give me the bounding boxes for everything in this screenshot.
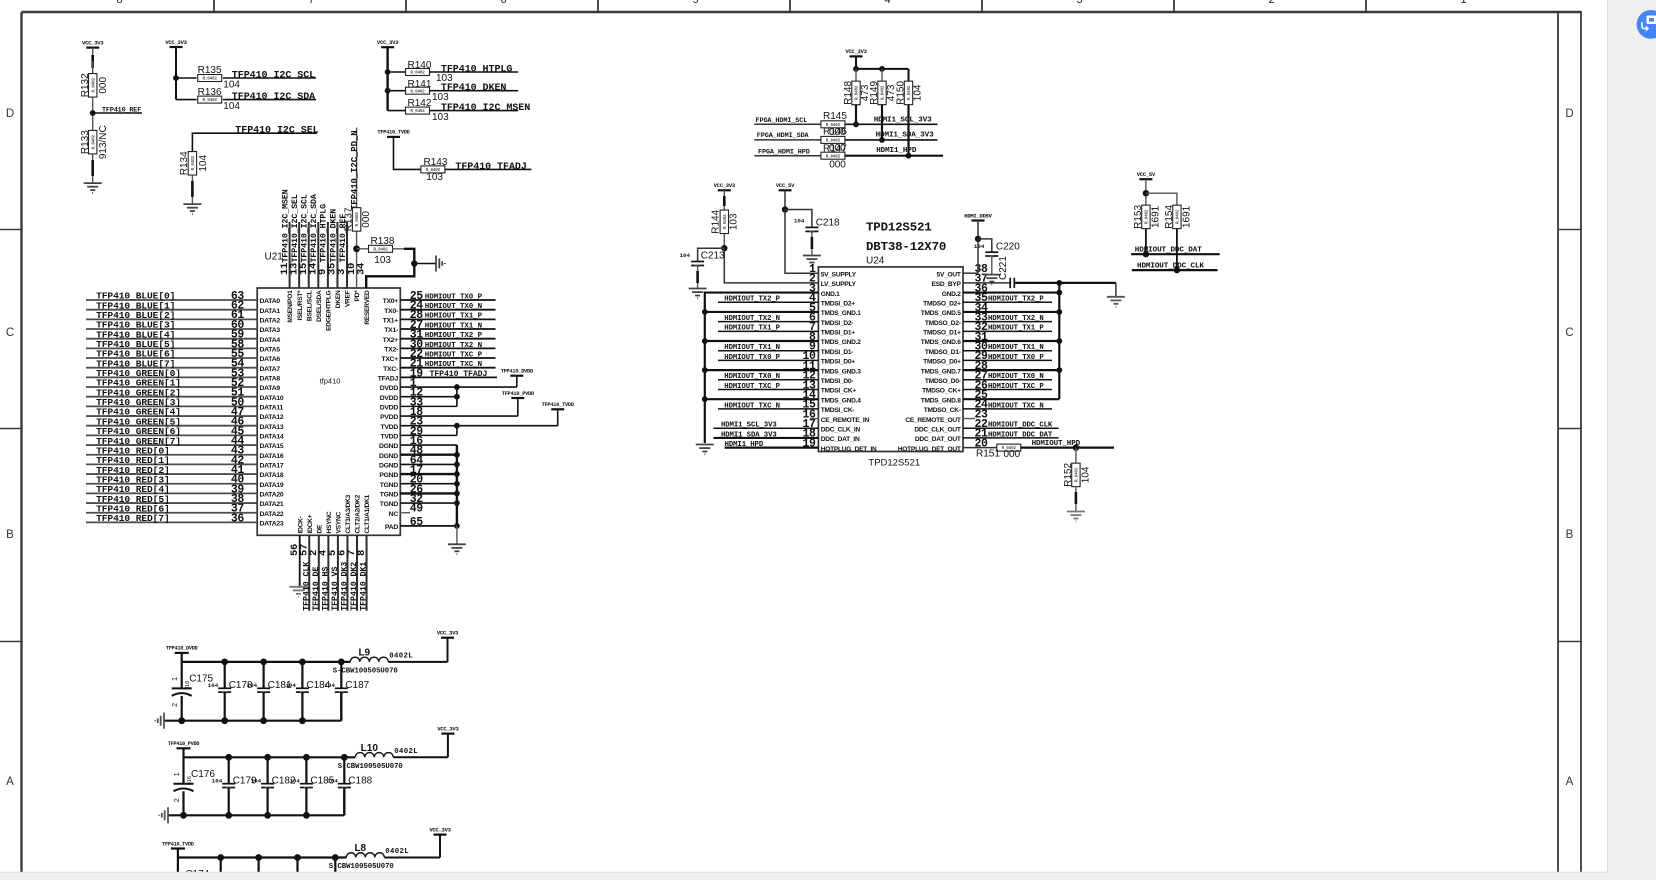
- svg-text:HDMIOUT_TX1_P: HDMIOUT_TX1_P: [724, 325, 780, 333]
- svg-text:HDMI_DD5V: HDMI_DD5V: [964, 212, 992, 219]
- svg-text:ESD_BYP: ESD_BYP: [932, 281, 962, 288]
- svg-text:DATA0: DATA0: [260, 298, 281, 305]
- svg-text:65: 65: [410, 516, 424, 529]
- svg-text:R_0402: R_0402: [855, 85, 860, 100]
- svg-text:HDMIOUT_TX1_N: HDMIOUT_TX1_N: [724, 344, 780, 352]
- resistor R144: [720, 210, 728, 234]
- net TFP410_GREEN[2] pin 51: [86, 396, 257, 398]
- svg-text:VCC_3V3: VCC_3V3: [429, 826, 451, 833]
- svg-text:000: 000: [98, 77, 109, 94]
- svg-text:VCC_5V: VCC_5V: [776, 182, 795, 189]
- svg-text:HDMIOUT_TX0_N: HDMIOUT_TX0_N: [988, 373, 1044, 381]
- wire U24 right GND bus: [1058, 283, 1060, 399]
- svg-text:4: 4: [884, 0, 890, 6]
- wire R149 down: [881, 105, 883, 140]
- svg-text:R147: R147: [823, 143, 847, 154]
- svg-text:TMDS_GND.7: TMDS_GND.7: [921, 368, 962, 375]
- svg-text:R_0402: R_0402: [203, 77, 218, 82]
- svg-text:R_0402: R_0402: [203, 98, 218, 103]
- svg-text:TFP410_DVDD: TFP410_DVDD: [166, 646, 198, 652]
- power VCC_3V3 (bank): [434, 833, 447, 835]
- resistor R149: [878, 81, 886, 105]
- wire TMDS_GND pin 8: [705, 340, 819, 342]
- wire pin20 to R151: [963, 447, 997, 449]
- net TFP410_RED[4] pin 39: [86, 492, 257, 494]
- resistor R146: [821, 136, 845, 143]
- net TFP410_BLUE[3] pin 60: [86, 328, 257, 330]
- svg-text:5V_OUT: 5V_OUT: [937, 271, 961, 278]
- net HDMIOUT_TXC_N pin 21: [400, 367, 495, 369]
- resistor R134: [188, 152, 196, 176]
- net TFP410_RED[2] pin 41: [86, 473, 257, 475]
- net HDMIOUT_TX2_N pin 30: [400, 347, 495, 349]
- svg-text:104: 104: [324, 682, 335, 689]
- wire TMDS_GND pin 31: [963, 340, 1059, 342]
- svg-text:HDMIOUT_TXC_N: HDMIOUT_TXC_N: [988, 402, 1044, 410]
- net HDMIOUT_TX0_N pin 24: [400, 309, 495, 311]
- wire: [92, 97, 94, 130]
- net TFP410_RED[0] pin 43: [86, 454, 257, 456]
- svg-text:TMDSO_D1+: TMDSO_D1+: [923, 330, 961, 337]
- net HDMI1_HPD (U24): [725, 447, 819, 449]
- svg-text:R146: R146: [823, 127, 847, 138]
- svg-text:TFP410_PVDD: TFP410_PVDD: [168, 741, 200, 747]
- svg-text:BSEL/SCL: BSEL/SCL: [306, 290, 313, 321]
- resistor R143: [421, 166, 445, 173]
- net TFP410_DKEN: [430, 90, 519, 92]
- power TFP410_DVDD (U21): [510, 375, 523, 377]
- svg-text:TGND: TGND: [380, 482, 399, 489]
- svg-text:0402L: 0402L: [389, 652, 413, 660]
- svg-text:104: 104: [289, 777, 300, 784]
- svg-text:R149: R149: [869, 81, 880, 105]
- svg-text:HDMIOUT_TX1_P: HDMIOUT_TX1_P: [988, 325, 1044, 333]
- svg-text:DATA15: DATA15: [260, 443, 284, 450]
- svg-text:TMDSO_D0+: TMDSO_D0+: [923, 359, 961, 366]
- capacitor stub: [220, 858, 222, 880]
- net HDMIOUT_TX1_N pin 27: [400, 328, 495, 330]
- wire rail: [182, 748, 184, 757]
- svg-text:104: 104: [913, 84, 924, 101]
- resistor R141: [406, 87, 430, 94]
- svg-text:C: C: [1565, 327, 1573, 339]
- capacitor C175 (polarized): [181, 662, 183, 689]
- zone ticks top: [213, 0, 215, 12]
- svg-text:R133: R133: [80, 130, 91, 154]
- svg-text:HDMIOUT_DDC_DAT: HDMIOUT_DDC_DAT: [988, 431, 1053, 439]
- svg-text:CLT3/A3/DK3: CLT3/A3/DK3: [345, 494, 352, 533]
- svg-text:DATA21: DATA21: [260, 501, 284, 508]
- wire R138 to pin34: [392, 248, 404, 250]
- svg-text:TFP410_TVDD: TFP410_TVDD: [162, 841, 194, 847]
- svg-text:FPGA_HDMI_HPD: FPGA_HDMI_HPD: [758, 148, 810, 156]
- pin 13 ISEL/RST* (U21 top): [298, 222, 300, 288]
- svg-text:C188: C188: [348, 775, 372, 786]
- net TFP410_TFADJ: [445, 168, 531, 170]
- capacitor stub: [296, 858, 298, 880]
- svg-text:DGND: DGND: [379, 443, 398, 450]
- resistor R136: [198, 96, 222, 103]
- wire to VCC: [384, 857, 440, 859]
- svg-text:HDMIOUT_DDC_CLK: HDMIOUT_DDC_CLK: [1137, 262, 1204, 270]
- resistor R151: [997, 444, 1021, 451]
- wire R150 down: [907, 105, 909, 156]
- pin 9 EDGE/HTPLG (U21 top): [327, 222, 329, 288]
- svg-text:C221: C221: [998, 256, 1009, 280]
- power TFP410_PVDD (bank): [177, 747, 191, 749]
- svg-text:HDMIOUT_TX1_P: HDMIOUT_TX1_P: [425, 313, 483, 321]
- svg-text:HDMIOUT_TX0_N: HDMIOUT_TX0_N: [425, 303, 482, 311]
- ground right bus: [1107, 296, 1125, 298]
- svg-text:TFP410_I2C_SEL: TFP410_I2C_SEL: [235, 126, 318, 137]
- svg-text:HDMIOUT_TX2_N: HDMIOUT_TX2_N: [724, 315, 780, 323]
- svg-text:0402L: 0402L: [385, 848, 409, 856]
- ground C218: [803, 255, 821, 257]
- svg-text:L9: L9: [358, 647, 370, 658]
- svg-text:DATA14: DATA14: [260, 433, 284, 440]
- svg-text:R_0402: R_0402: [1075, 467, 1080, 482]
- svg-text:2: 2: [172, 703, 179, 707]
- svg-text:TXC+: TXC+: [381, 356, 398, 363]
- wire TMDS_GND pin 34: [963, 311, 1059, 313]
- svg-text:000: 000: [1004, 449, 1021, 460]
- pin 4 HSYNC (U21 bottom): [327, 535, 329, 610]
- capacitor C181: [263, 662, 265, 688]
- net TFP410_I2C_SDA: [223, 99, 316, 101]
- svg-text:R_0402: R_0402: [410, 89, 425, 94]
- svg-text:R151: R151: [976, 449, 1000, 460]
- chip U24 TPD12S521 outline: [818, 267, 963, 452]
- wire rail: [181, 653, 183, 662]
- svg-text:R136: R136: [198, 87, 222, 98]
- svg-text:TFP410_DE: TFP410_DE: [312, 567, 321, 611]
- net TFP410_I2C_PD_N: [356, 128, 358, 208]
- wire R148 down: [855, 105, 857, 125]
- svg-text:103: 103: [374, 255, 391, 266]
- svg-text:1691: 1691: [1181, 205, 1192, 228]
- power TFP410_PVDD (U21): [511, 397, 524, 399]
- wire ESD_BYP to gnd: [1014, 282, 1116, 284]
- net TFP410_TFADJ pin 19: [400, 376, 497, 378]
- svg-text:U24: U24: [866, 256, 885, 267]
- net TFP410_RED[6] pin 37: [86, 512, 257, 514]
- svg-text:DATA18: DATA18: [260, 472, 284, 479]
- svg-text:DATA16: DATA16: [260, 453, 284, 460]
- svg-text:R153: R153: [1133, 205, 1144, 229]
- svg-text:104: 104: [198, 155, 209, 172]
- resistor R153: [1142, 205, 1150, 229]
- svg-text:HDMIOUT_DDC_DAT: HDMIOUT_DDC_DAT: [1135, 247, 1202, 255]
- pin 2 DE (U21 bottom): [318, 535, 320, 610]
- net HDMIOUT_TXC_N (U24 pin 15): [718, 408, 818, 410]
- svg-text:TX1-: TX1-: [384, 327, 398, 334]
- svg-text:CLT2/A2/DK2: CLT2/A2/DK2: [355, 494, 362, 533]
- svg-text:R_0402: R_0402: [1145, 209, 1150, 224]
- svg-text:TX0-: TX0-: [384, 308, 398, 315]
- net TFP410_BLUE[2] pin 61: [86, 318, 257, 320]
- svg-text:TMDSO_D0-: TMDSO_D0-: [925, 378, 961, 385]
- svg-text:DGND: DGND: [379, 462, 398, 469]
- resistor R133: [89, 130, 97, 154]
- svg-text:L10: L10: [361, 743, 379, 754]
- net HDMIOUT_TX1_P (U24 right): [963, 330, 1052, 332]
- svg-text:DATA23: DATA23: [260, 521, 284, 528]
- svg-text:104: 104: [794, 217, 805, 224]
- capacitor C221 (ESD_BYP): [963, 282, 1010, 284]
- net TFP410_RED[3] pin 40: [86, 483, 257, 485]
- power VCC_3V3 (R140): [381, 46, 394, 48]
- svg-text:VCC_3V3: VCC_3V3: [437, 630, 459, 637]
- svg-text:TMDS_GND.2: TMDS_GND.2: [821, 339, 862, 346]
- svg-text:8: 8: [356, 550, 368, 556]
- svg-text:R134: R134: [179, 151, 190, 175]
- svg-text:VCC_3V3: VCC_3V3: [377, 39, 399, 46]
- svg-text:R145: R145: [823, 111, 847, 122]
- svg-text:CLT1/A1/DK1: CLT1/A1/DK1: [364, 494, 371, 533]
- viewer gray margins: [1608, 0, 1656, 880]
- pin PAD 65: [400, 525, 457, 527]
- svg-text:R142: R142: [408, 98, 432, 109]
- svg-text:TMDSI_D0-: TMDSI_D0-: [821, 378, 854, 385]
- wire to VCC: [393, 756, 448, 758]
- svg-text:HDMIOUT_TX1_N: HDMIOUT_TX1_N: [425, 322, 482, 330]
- svg-text:PGND: PGND: [379, 472, 398, 479]
- svg-text:TGND: TGND: [380, 501, 399, 508]
- svg-text:R140: R140: [408, 60, 432, 71]
- wire to C213: [698, 248, 725, 261]
- svg-text:104: 104: [208, 682, 219, 689]
- resistor R137: [352, 208, 360, 232]
- svg-text:TFP410_I2C_SDA: TFP410_I2C_SDA: [310, 194, 319, 262]
- net FPGA_HDMI_SDA: [754, 139, 821, 141]
- svg-text:DATA9: DATA9: [260, 385, 281, 392]
- svg-text:DATA22: DATA22: [260, 511, 284, 518]
- svg-text:HDMIOUT_TX2_P: HDMIOUT_TX2_P: [988, 296, 1044, 304]
- power VCC_3V3 (bank): [441, 637, 454, 639]
- svg-text:TGND: TGND: [380, 492, 399, 499]
- svg-text:B: B: [6, 529, 14, 541]
- svg-text:DSEL/SDA: DSEL/SDA: [316, 290, 323, 322]
- net HDMIOUT_TXC_P pin 22: [400, 357, 495, 359]
- svg-text:TVDD: TVDD: [380, 424, 398, 431]
- ground (bank): [167, 807, 169, 823]
- capacitor C184: [301, 662, 303, 688]
- svg-text:DATA5: DATA5: [260, 346, 281, 353]
- svg-text:104: 104: [680, 252, 691, 259]
- svg-text:HDMI1_HPD: HDMI1_HPD: [725, 441, 764, 449]
- power VCC_3V3 (R132): [86, 46, 99, 48]
- svg-text:TX1+: TX1+: [383, 317, 399, 324]
- svg-text:tfp410: tfp410: [320, 377, 341, 386]
- svg-text:ISEL/RST*: ISEL/RST*: [297, 290, 304, 321]
- capacitor C176 (polarized): [182, 757, 184, 784]
- wire TMDS_GND pin 5: [705, 311, 819, 313]
- wire TMDS_GND pin 28: [963, 369, 1059, 371]
- wire R153 down: [1145, 229, 1147, 255]
- wire TMDS_GND pin 36: [963, 291, 1059, 293]
- svg-text:CE_REMOTE_IN: CE_REMOTE_IN: [821, 417, 870, 424]
- resistor R152: [1075, 448, 1077, 464]
- wire: [723, 190, 725, 210]
- wire: [175, 47, 177, 100]
- svg-text:CE_REMOTE_OUT: CE_REMOTE_OUT: [905, 417, 961, 424]
- svg-text:HDMIOUT_TXC_P: HDMIOUT_TXC_P: [988, 383, 1044, 391]
- svg-text:HDMIOUT_TXC_P: HDMIOUT_TXC_P: [425, 351, 483, 359]
- inductor L10: [355, 753, 393, 758]
- svg-text:DGND: DGND: [379, 453, 398, 460]
- svg-text:DVDD: DVDD: [380, 404, 399, 411]
- wire: [1145, 179, 1147, 205]
- wire rail: [177, 849, 179, 858]
- pin 8 CLT1/A1/DK1 (U21 bottom): [366, 535, 368, 610]
- svg-text:D: D: [6, 108, 14, 120]
- svg-text:R138: R138: [371, 236, 395, 247]
- svg-text:A: A: [6, 776, 14, 788]
- wire: [386, 47, 388, 110]
- svg-text:HSYNC: HSYNC: [326, 511, 333, 533]
- svg-text:VCC_3V3: VCC_3V3: [82, 39, 104, 46]
- svg-text:R154: R154: [1164, 205, 1175, 229]
- svg-text:PD*: PD*: [354, 290, 361, 302]
- ground U21: [456, 526, 458, 544]
- capacitor C213: [691, 261, 704, 263]
- svg-text:VCC_5V: VCC_5V: [1137, 171, 1156, 178]
- svg-text:1: 1: [174, 772, 181, 776]
- capacitor C182: [267, 757, 269, 783]
- svg-text:DVDD: DVDD: [380, 395, 399, 402]
- svg-text:R_0402: R_0402: [355, 212, 360, 227]
- svg-text:TFP410_TFADJ: TFP410_TFADJ: [430, 370, 488, 379]
- svg-text:DATA2: DATA2: [260, 317, 281, 324]
- svg-text:1691: 1691: [1150, 205, 1161, 228]
- wire bottom rail: [164, 720, 341, 722]
- wire TVDD: [557, 409, 559, 425]
- wire to C218: [785, 210, 812, 228]
- svg-text:104: 104: [251, 777, 262, 784]
- pin 3 VREF (U21 top): [346, 222, 348, 288]
- svg-text:TFP410_I2C_SCL: TFP410_I2C_SCL: [232, 71, 315, 82]
- net TFP410_RED[1] pin 42: [86, 463, 257, 465]
- svg-text:HOTPLUG_DET_OUT: HOTPLUG_DET_OUT: [898, 446, 961, 453]
- resistor R148: [852, 81, 860, 105]
- svg-text:7: 7: [308, 0, 314, 6]
- net HDMI1_HPD: [845, 155, 944, 157]
- svg-text:36: 36: [231, 512, 245, 525]
- svg-text:104: 104: [285, 682, 296, 689]
- net HDMIOUT_DDC_DAT (pullup): [1131, 253, 1220, 255]
- svg-text:TMDSI_CK-: TMDSI_CK-: [821, 407, 855, 414]
- net TFP410_GREEN[7] pin 44: [86, 444, 257, 446]
- wire: [784, 190, 786, 209]
- wire: [855, 56, 857, 69]
- svg-text:HDMIOUT_TX0_P: HDMIOUT_TX0_P: [425, 293, 483, 301]
- svg-text:TX2-: TX2-: [384, 346, 398, 353]
- svg-text:DATA6: DATA6: [260, 356, 281, 363]
- pin 5 VSYNC (U21 bottom): [337, 535, 339, 610]
- power TFP410_TVDD (R143): [387, 136, 400, 138]
- net HDMIOUT_DDC_CLK (U24): [963, 427, 1059, 429]
- net TFP410_I2C_SCL: [223, 77, 316, 79]
- wire: [92, 154, 94, 183]
- net HDMI1_SDA_3V3 (U24): [714, 437, 819, 439]
- svg-text:TPD12S521: TPD12S521: [866, 221, 932, 235]
- net HDMIOUT_TX2_P (U24 pin 4): [718, 301, 818, 303]
- capacitor C188: [343, 757, 345, 783]
- capacitor stub: [258, 858, 260, 880]
- svg-text:DATA8: DATA8: [260, 375, 281, 382]
- capacitor C187: [340, 662, 342, 688]
- svg-text:HDMIOUT_TX2_N: HDMIOUT_TX2_N: [425, 342, 482, 350]
- net HDMIOUT_TX0_P (U24 right): [963, 359, 1052, 361]
- svg-text:TMDS_GND.8: TMDS_GND.8: [921, 397, 962, 404]
- wire GND bus U21: [456, 445, 458, 526]
- svg-text:S-CBW100505U070: S-CBW100505U070: [329, 863, 394, 871]
- net HDMIOUT_TX2_P pin 31: [400, 338, 495, 340]
- svg-text:R_0402: R_0402: [91, 134, 96, 149]
- svg-text:TFP410_DK3: TFP410_DK3: [340, 562, 349, 611]
- wire PVDD: [517, 398, 519, 416]
- svg-text:TFP410_DK1: TFP410_DK1: [360, 562, 369, 611]
- svg-text:TVDD: TVDD: [380, 433, 398, 440]
- svg-text:HDMIOUT_TXC_N: HDMIOUT_TXC_N: [724, 402, 780, 410]
- pin 16 CE_REMOTE_IN stub: [810, 418, 818, 420]
- svg-text:GND.2: GND.2: [942, 291, 961, 298]
- svg-text:TMDSI_D0+: TMDSI_D0+: [821, 359, 856, 366]
- svg-text:TMDSI_D1-: TMDSI_D1-: [821, 349, 854, 356]
- svg-text:R_0402: R_0402: [881, 85, 886, 100]
- pin NC 49: [400, 512, 410, 514]
- wire U24 left GND bus: [705, 293, 819, 443]
- svg-text:RESERVED: RESERVED: [364, 290, 371, 325]
- capacitor C178: [224, 662, 226, 688]
- svg-text:C187: C187: [345, 680, 369, 691]
- svg-text:TMDS_GND.4: TMDS_GND.4: [821, 397, 862, 404]
- svg-text:TFP410_HTPLG: TFP410_HTPLG: [320, 204, 329, 263]
- net HDMIOUT_TX0_N (U24 right): [963, 379, 1052, 381]
- svg-text:R_0402: R_0402: [1176, 209, 1181, 224]
- svg-text:HDMIOUT_TX2_N: HDMIOUT_TX2_N: [988, 315, 1044, 323]
- svg-text:PVDD: PVDD: [380, 414, 398, 421]
- svg-text:TMDS_GND.6: TMDS_GND.6: [921, 339, 962, 346]
- power TFP410_TVDD (U21): [551, 408, 564, 410]
- op chip U21 tfp410 outline: [257, 288, 400, 535]
- svg-text:TFP410_RED[7]: TFP410_RED[7]: [96, 513, 170, 524]
- sheet border frame: [22, 11, 1582, 13]
- svg-text:913/NC: 913/NC: [98, 125, 109, 159]
- svg-text:TMDSI_CK+: TMDSI_CK+: [821, 388, 857, 395]
- svg-text:TFADJ: TFADJ: [378, 375, 399, 382]
- wire: [191, 175, 193, 204]
- svg-text:104: 104: [1080, 466, 1091, 483]
- net TFP410_GREEN[6] pin 45: [86, 434, 257, 436]
- svg-text:GND.1: GND.1: [821, 291, 840, 298]
- svg-text:DATA1: DATA1: [260, 308, 281, 315]
- svg-text:D: D: [1565, 108, 1573, 120]
- svg-text:DATA12: DATA12: [260, 414, 284, 421]
- pin 11 MSEN/PO1 (U21 top): [289, 222, 291, 288]
- net TFP410_RED[7] pin 36: [86, 521, 257, 523]
- svg-text:DATA4: DATA4: [260, 337, 281, 344]
- net TFP410_GREEN[1] pin 52: [86, 386, 257, 388]
- svg-text:TX2+: TX2+: [383, 337, 399, 344]
- svg-text:6: 6: [500, 0, 506, 6]
- ground: [84, 182, 102, 184]
- svg-text:DKEN: DKEN: [335, 290, 342, 308]
- wire to VCC: [388, 661, 447, 663]
- svg-text:A: A: [1566, 776, 1574, 788]
- svg-text:HDMI1_SCL_3V3: HDMI1_SCL_3V3: [721, 422, 777, 430]
- node TFP410_REF: [90, 110, 96, 116]
